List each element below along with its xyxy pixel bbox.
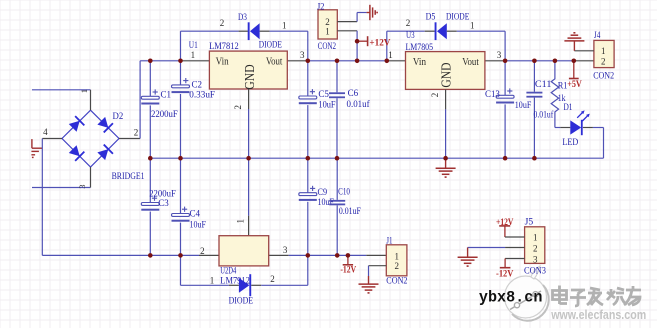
wire D4 cathode stub xyxy=(251,284,261,286)
wire C5 bottom stem xyxy=(307,105,309,158)
label DIODE (D3) xyxy=(259,41,282,51)
label C13 xyxy=(485,90,500,100)
watermark url www.elecfans.com xyxy=(550,308,646,322)
wire C13 bottom stem xyxy=(504,104,506,158)
svg-text:DIODE: DIODE xyxy=(446,13,469,23)
svg-text:2: 2 xyxy=(533,244,538,254)
watermark text ybx8.cn xyxy=(479,289,543,307)
svg-text:1: 1 xyxy=(325,26,330,36)
bridge rectifier D2 BRIDGE1 xyxy=(62,110,119,167)
capacitor C5 xyxy=(299,89,317,104)
wire D4 anode stub xyxy=(229,284,239,286)
svg-text:www.elecfans.com: www.elecfans.com xyxy=(550,308,646,322)
D5 pin 2 number xyxy=(406,18,411,28)
svg-text:0.01uf: 0.01uf xyxy=(347,99,371,110)
U1 pin 1 number xyxy=(191,50,196,60)
power port +12V (J5) xyxy=(499,226,510,237)
svg-text:2200uF: 2200uF xyxy=(151,110,178,120)
svg-text:U3: U3 xyxy=(406,31,415,41)
label C9 xyxy=(318,188,328,198)
svg-text:+12V: +12V xyxy=(369,38,390,48)
connector J2 CON2 xyxy=(318,10,337,39)
svg-text:2: 2 xyxy=(406,18,411,28)
svg-text:J1: J1 xyxy=(386,237,392,247)
svg-text:10uF: 10uF xyxy=(318,198,334,208)
capacitor C10 xyxy=(329,200,345,205)
svg-text:D5: D5 xyxy=(426,13,436,23)
wire C2 bottom stem xyxy=(180,94,182,158)
value 2200uF (C3) xyxy=(149,190,176,200)
svg-text:-12V: -12V xyxy=(496,270,514,280)
junction dots top rail xyxy=(148,59,576,64)
svg-text:3: 3 xyxy=(497,50,502,60)
svg-text:1: 1 xyxy=(388,50,393,60)
wire J1 pin2 stub xyxy=(369,265,387,267)
label U1 xyxy=(189,41,198,51)
svg-text:LM7805: LM7805 xyxy=(406,43,434,53)
connector J1 CON2 xyxy=(386,245,407,276)
label D1 xyxy=(564,103,573,113)
label C6 xyxy=(348,89,359,99)
svg-text:2: 2 xyxy=(601,57,606,67)
bridge pin 4 stub xyxy=(42,138,62,140)
svg-text:C1: C1 xyxy=(161,90,172,100)
diode D4 xyxy=(239,274,251,296)
capacitor C4 xyxy=(172,207,190,222)
svg-text:J2: J2 xyxy=(317,2,325,12)
power port +5V xyxy=(569,61,579,79)
U1 pin 3 number xyxy=(300,50,305,60)
label D5 xyxy=(426,13,436,23)
ground (earth) at J1 pin2 xyxy=(359,276,379,293)
label CON2 (J1) xyxy=(386,276,407,286)
label D2 xyxy=(113,111,124,122)
D3 pin 2 number xyxy=(220,18,225,28)
label CON2 (J4) xyxy=(593,71,614,81)
wire J1 pin2 down xyxy=(368,266,370,276)
wire D4 right riser xyxy=(261,255,308,285)
op-amp regulator U1 LM7812 xyxy=(209,51,287,89)
svg-text:3: 3 xyxy=(300,50,305,60)
wire U3 GND to ground rail xyxy=(445,109,447,158)
wire C3 bottom stem xyxy=(149,212,151,256)
diode D5 xyxy=(435,22,447,40)
svg-text:BRIDGE1: BRIDGE1 xyxy=(112,172,145,182)
ground (earth, rotated) at J2 xyxy=(367,5,378,20)
svg-text:D1: D1 xyxy=(564,103,573,113)
wire ground rail xyxy=(150,157,603,159)
junction at +12V tap xyxy=(355,39,360,44)
svg-text:1: 1 xyxy=(470,20,475,30)
value 2200uF (C1) xyxy=(151,110,178,120)
connector J5 CON3 xyxy=(525,227,545,265)
svg-text:10uF: 10uF xyxy=(515,101,532,111)
wire U1 Vin pin stub xyxy=(181,60,210,62)
wire J2 pin2 to ground xyxy=(357,13,367,22)
svg-text:GND: GND xyxy=(440,62,455,87)
svg-text:10uF: 10uF xyxy=(318,100,335,110)
svg-text:1: 1 xyxy=(533,233,538,243)
svg-text:C3: C3 xyxy=(158,199,169,209)
wire +12V rail segment xyxy=(308,60,387,62)
svg-text:U2D4: U2D4 xyxy=(220,267,236,277)
resistor R1 xyxy=(551,61,558,128)
value 0.01uf (C11) xyxy=(534,109,554,120)
label C11 xyxy=(535,80,552,90)
wire LED cathode stub xyxy=(583,127,593,129)
svg-text:2: 2 xyxy=(430,93,440,98)
svg-text:CON2: CON2 xyxy=(386,276,407,286)
label +12V (top) xyxy=(369,38,390,48)
U2 pin 2 number xyxy=(200,246,205,256)
wire J2 pin1 stub xyxy=(337,30,357,32)
ground (earth) at J5 pin2 xyxy=(458,248,478,267)
bridge pin 1 number xyxy=(79,89,89,93)
wire U3 GND pin stub xyxy=(445,89,447,109)
wire J2 pin1 down to rail xyxy=(356,31,358,61)
svg-text:Vout: Vout xyxy=(462,57,479,68)
label C3 xyxy=(158,199,169,209)
bridge pin 4 number xyxy=(43,127,48,137)
D4 pin 2 number xyxy=(270,274,275,284)
op-amp regulator U3 LM7805 xyxy=(406,52,485,90)
wire negative rail right segment xyxy=(289,254,367,256)
U3 pin 2 number xyxy=(430,93,440,98)
label R1 xyxy=(558,82,568,92)
label BRIDGE1 xyxy=(112,172,145,182)
wire J5 pin3 stub xyxy=(505,258,524,260)
svg-text:CON2: CON2 xyxy=(593,71,614,81)
svg-text:+12V: +12V xyxy=(496,218,514,228)
label J1 xyxy=(386,237,392,247)
svg-text:C9: C9 xyxy=(318,188,328,198)
svg-text:3: 3 xyxy=(283,245,288,255)
wire D3 left riser xyxy=(181,31,239,61)
connector J4 CON2 xyxy=(594,40,614,67)
svg-text:0.33uF: 0.33uF xyxy=(189,90,215,100)
capacitor C9 xyxy=(299,186,317,201)
wire U3 Vout pin stub xyxy=(485,60,505,62)
wire R1 to LED xyxy=(555,127,560,129)
svg-text:3: 3 xyxy=(77,185,87,189)
wire C10 bottom stem xyxy=(336,205,338,255)
value 0.33uF (C2) xyxy=(189,90,215,100)
wire C6 bottom stem xyxy=(336,98,338,158)
svg-text:C2: C2 xyxy=(192,80,203,90)
wire C5 top stem xyxy=(307,61,309,96)
wire C9 bottom stem xyxy=(307,202,309,256)
wire C3 top stem xyxy=(149,158,151,202)
label CON2 (J2) xyxy=(318,42,337,52)
value 0.01uF (C10) xyxy=(339,207,361,217)
svg-text:Vout: Vout xyxy=(266,57,283,68)
wire +5V rail segment xyxy=(505,60,574,62)
label D3 xyxy=(238,13,247,23)
U3 pin 1 number xyxy=(388,50,393,60)
wire C4 bottom stem xyxy=(180,223,182,256)
value 10uF (C4) xyxy=(190,221,206,231)
capacitor C2 xyxy=(172,78,190,93)
label -12V (J1) xyxy=(340,265,356,275)
junction dots ground rail xyxy=(148,156,537,161)
svg-text:2: 2 xyxy=(220,18,225,28)
label J5 xyxy=(525,218,534,228)
wire AC input bottom xyxy=(32,187,91,189)
U2 pin 3 number xyxy=(283,245,288,255)
svg-text:2: 2 xyxy=(233,105,243,110)
wire LED return loop xyxy=(593,128,604,159)
wire AC input top xyxy=(32,89,91,91)
wire D5 right riser xyxy=(457,31,505,61)
svg-text:1: 1 xyxy=(210,275,215,285)
label DIODE (D4) xyxy=(229,296,254,306)
wire U1 Vout pin stub xyxy=(287,60,308,62)
svg-text:D2: D2 xyxy=(113,111,124,122)
wire C13 top stem xyxy=(504,61,506,96)
wire C10 top stem xyxy=(336,158,338,200)
svg-text:1: 1 xyxy=(235,219,245,224)
LED D1 xyxy=(570,110,590,135)
wire U2 pin3 stub xyxy=(269,254,289,256)
svg-text:C5: C5 xyxy=(318,90,329,100)
wire J4 pin2 stub xyxy=(574,60,594,62)
svg-text:3: 3 xyxy=(533,255,538,265)
svg-text:2: 2 xyxy=(270,274,275,284)
U3 pin 3 number xyxy=(497,50,502,60)
svg-text:+5V: +5V xyxy=(567,80,582,90)
label C4 xyxy=(190,210,201,220)
diode D3 xyxy=(248,22,260,40)
ground (earth, inverted) above J4 xyxy=(564,33,584,51)
bridge pin 1 stub xyxy=(90,90,92,110)
label LM7805 xyxy=(406,43,434,53)
svg-text:DIODE: DIODE xyxy=(229,296,254,306)
svg-text:D3: D3 xyxy=(238,13,247,23)
svg-text:LED: LED xyxy=(562,138,578,148)
bridge pin 3 number xyxy=(77,185,87,189)
bridge pin 3 stub xyxy=(90,167,92,188)
watermark CJK characters xyxy=(553,286,642,307)
svg-text:GND: GND xyxy=(243,64,258,89)
label DIODE (D5) xyxy=(446,13,469,23)
label U2D4 xyxy=(220,267,236,277)
wire U1 GND pin stub xyxy=(248,89,250,109)
svg-text:1: 1 xyxy=(191,50,196,60)
svg-text:1: 1 xyxy=(282,20,287,30)
capacitor C11 xyxy=(526,92,542,98)
value 0.01uf (C6) xyxy=(347,99,371,110)
wire +raw rail segment A xyxy=(140,60,180,62)
value 10uF (C9) xyxy=(318,198,334,208)
wire C1 top stem xyxy=(149,61,151,97)
svg-text:-12V: -12V xyxy=(340,265,356,275)
svg-text:1: 1 xyxy=(79,89,89,93)
svg-text:J5: J5 xyxy=(525,218,534,228)
wire C11 top stem xyxy=(533,61,535,92)
bridge pin 2 number xyxy=(134,127,139,137)
value 10uF (C13) xyxy=(515,101,532,111)
wire C1 bottom stem xyxy=(149,105,151,158)
wire U1 GND to ground rail xyxy=(248,109,250,158)
wire U2 pin2 stub xyxy=(199,254,219,256)
capacitor C13 xyxy=(496,88,514,103)
label CON3 (J5) xyxy=(524,266,546,276)
D5 pin 1 number xyxy=(470,20,475,30)
wire negative raw vertical xyxy=(41,139,43,256)
wire C9 top stem xyxy=(307,158,309,193)
svg-text:1: 1 xyxy=(395,251,400,261)
capacitor C1 xyxy=(141,89,159,104)
ground (earth) at bridge pin 4 xyxy=(31,139,42,157)
svg-text:2: 2 xyxy=(395,261,400,271)
wire D4 left riser xyxy=(181,255,229,285)
wire C6 top stem xyxy=(336,61,338,93)
svg-text:C13: C13 xyxy=(485,90,500,100)
wire LED anode stub xyxy=(560,127,570,129)
label LM7812 xyxy=(209,42,239,52)
svg-text:Vin: Vin xyxy=(216,57,229,68)
D3 pin 1 number xyxy=(282,20,287,30)
D4 pin 1 number xyxy=(210,275,215,285)
wire bridge positive riser xyxy=(139,61,141,139)
power port -12V (J5) xyxy=(500,259,511,268)
watermark logo circle xyxy=(505,266,549,321)
svg-text:CON3: CON3 xyxy=(524,266,546,276)
power port +12V (top) xyxy=(357,36,368,46)
wire J5 pin2 wire xyxy=(468,247,506,249)
svg-text:ybx8.cn: ybx8.cn xyxy=(479,289,543,307)
wire D3 anode stub xyxy=(260,30,270,32)
wire C11 bottom stem xyxy=(533,98,535,159)
regulator U2 LM7912 xyxy=(219,236,269,266)
wire U2 pin1 stub xyxy=(248,216,250,236)
label LED xyxy=(562,138,578,148)
capacitor C6 xyxy=(329,92,345,98)
label U3 xyxy=(406,31,415,41)
svg-text:C4: C4 xyxy=(190,210,201,220)
svg-text:0.01uf: 0.01uf xyxy=(534,109,554,120)
label C1 xyxy=(161,90,172,100)
svg-text:2: 2 xyxy=(134,127,139,137)
U1 pin 2 number xyxy=(233,105,243,110)
svg-text:C11: C11 xyxy=(535,80,552,90)
svg-text:CON2: CON2 xyxy=(318,42,337,52)
label J2 xyxy=(317,2,325,12)
ground (earth) below U3 xyxy=(436,158,456,177)
svg-text:Vin: Vin xyxy=(413,57,426,68)
wire J4 pin1 stub xyxy=(574,50,594,52)
value 1k (R1) xyxy=(558,94,566,104)
svg-text:2: 2 xyxy=(200,246,205,256)
wire J5 pin2 stub xyxy=(505,247,524,249)
wire U3 Vin pin stub xyxy=(387,60,406,62)
svg-text:J4: J4 xyxy=(594,31,601,41)
capacitor C3 xyxy=(141,196,159,211)
wire J5 pin1 stub xyxy=(505,236,525,238)
junction dots bottom rail xyxy=(148,253,350,258)
wire D3 right riser xyxy=(270,31,308,61)
U2 pin 1 number xyxy=(235,219,245,224)
svg-text:4: 4 xyxy=(43,127,48,137)
bridge pin 2 stub xyxy=(119,138,140,140)
svg-text:1: 1 xyxy=(601,46,606,56)
wire negative rail left segment xyxy=(42,254,199,256)
svg-text:10uF: 10uF xyxy=(190,221,206,231)
wire J2 pin2 stub xyxy=(337,21,357,23)
label J4 xyxy=(594,31,601,41)
value 10uF (C5) xyxy=(318,100,335,110)
svg-text:C10: C10 xyxy=(338,187,350,197)
wire D5 anode stub xyxy=(447,30,457,32)
svg-text:LM7812: LM7812 xyxy=(209,42,239,52)
wire D5 cathode stub xyxy=(425,30,435,32)
label +5V xyxy=(567,80,582,90)
label C5 xyxy=(318,90,329,100)
wire C2 top stem xyxy=(180,61,182,85)
wire D3 cathode stub xyxy=(239,30,248,32)
label C2 xyxy=(192,80,203,90)
label +12V (J5) xyxy=(496,218,514,228)
label -12V (J5) xyxy=(496,270,514,280)
svg-text:0.01uF: 0.01uF xyxy=(339,207,361,217)
svg-text:DIODE: DIODE xyxy=(259,41,282,51)
svg-text:C6: C6 xyxy=(348,89,359,99)
wire C4 top stem xyxy=(180,158,182,213)
wire ground rail to U2 pin1 xyxy=(248,158,250,216)
label C10 xyxy=(338,187,350,197)
wire J1 pin1 stub xyxy=(366,254,386,256)
label LM7912 xyxy=(220,277,250,287)
wire D5 left riser xyxy=(387,31,425,61)
power port -12V (J1) xyxy=(343,255,353,264)
